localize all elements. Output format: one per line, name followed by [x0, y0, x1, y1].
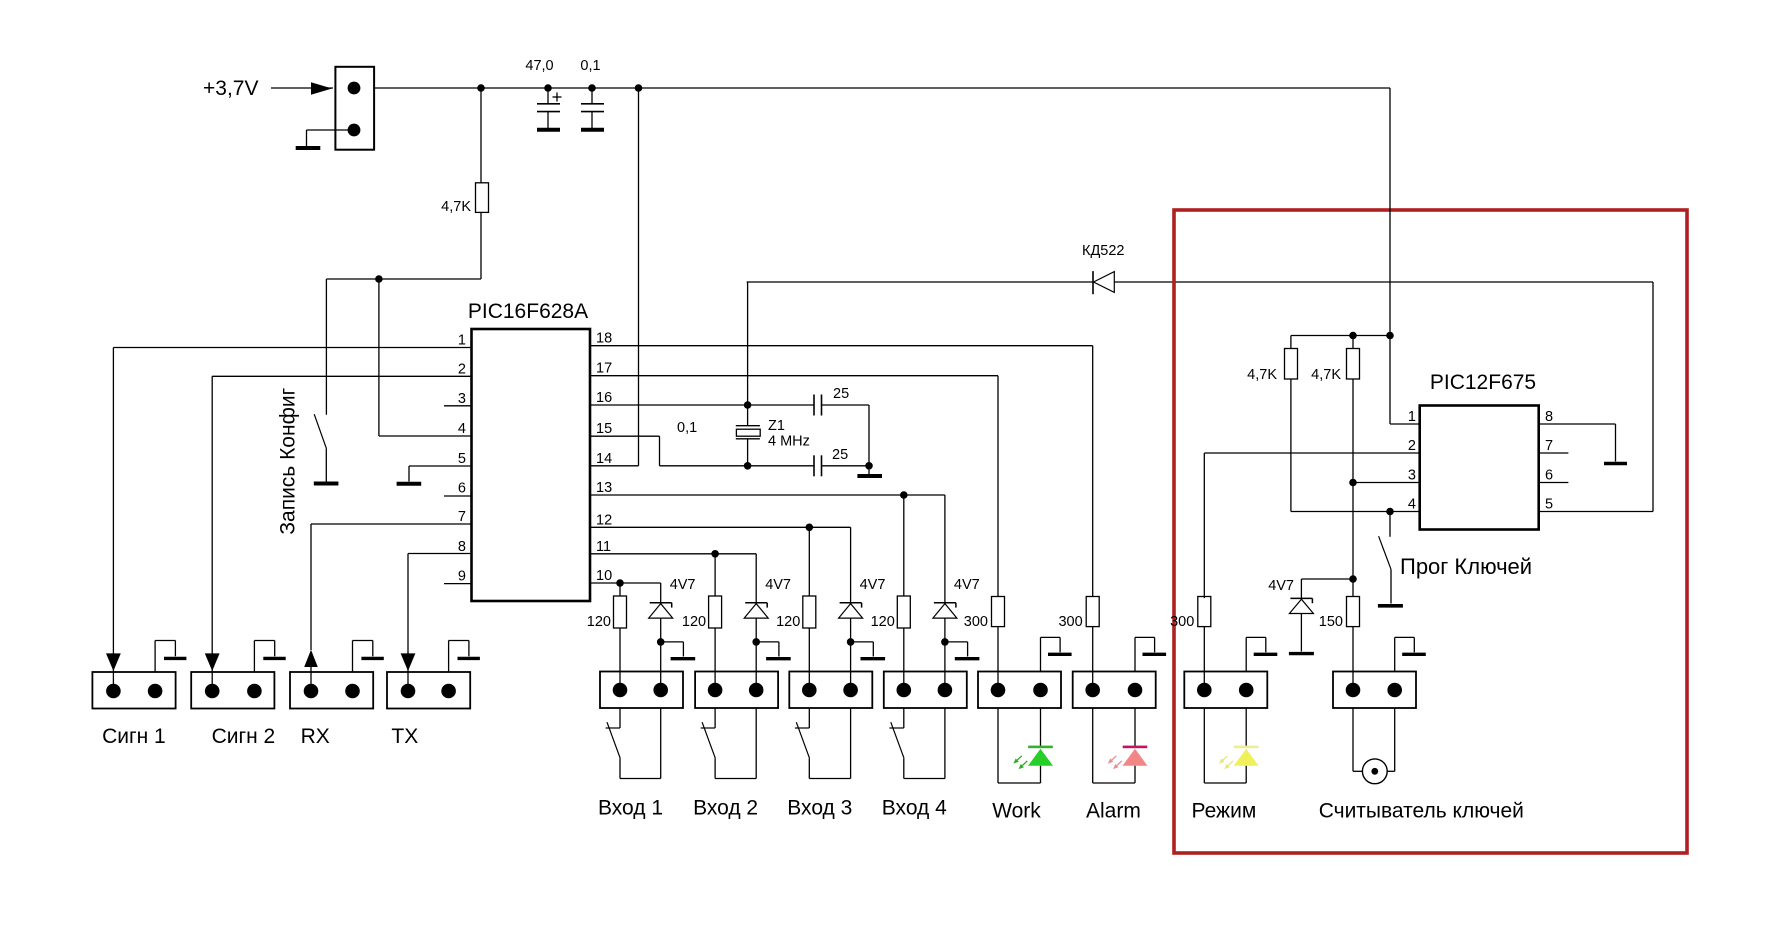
wire to switch S1 — [325, 279, 327, 415]
connector TX — [387, 672, 470, 709]
wire diode line left — [747, 281, 1093, 283]
wire pin8 U2 to ground — [1539, 424, 1616, 462]
connector keys — [1333, 672, 1416, 709]
node junction crystal bottom — [744, 462, 752, 470]
capacitor C1 47,0 — [537, 88, 562, 128]
capacitor C4 25 bottom — [748, 455, 869, 476]
wire R to connector input 1 — [619, 628, 621, 690]
wire switch loop input 1 — [620, 708, 661, 779]
wire LED loop Work — [998, 708, 1041, 783]
wire diode line right — [1114, 282, 1653, 512]
resistor 120 input 2 — [709, 596, 722, 628]
svg-text:4: 4 — [458, 421, 466, 437]
resistor Work — [992, 597, 1005, 627]
wire R to connector input 2 — [714, 628, 716, 690]
arrow Сигн 2 — [205, 653, 220, 671]
svg-text:25: 25 — [832, 447, 848, 463]
wire ground step keys — [1395, 637, 1415, 671]
switch input 2 — [701, 708, 716, 779]
wire R to connector Alarm — [1092, 627, 1094, 690]
wire pin10 U1 to input 1 — [590, 583, 661, 602]
svg-text:3: 3 — [458, 391, 466, 407]
svg-text:1: 1 — [458, 333, 466, 349]
pin numbers U2 — [1408, 409, 1553, 513]
wire pin3 U2 — [1353, 482, 1420, 484]
svg-text:12: 12 — [596, 512, 612, 528]
switch input 3 — [795, 708, 810, 779]
ground RX — [361, 657, 383, 660]
node junction pin4 switch — [1386, 508, 1394, 516]
svg-text:1: 1 — [1408, 409, 1416, 425]
svg-text:PIC16F628A: PIC16F628A — [468, 300, 588, 323]
svg-text:Вход 3: Вход 3 — [787, 797, 852, 820]
wire R3 down — [1352, 379, 1354, 596]
svg-text:Вход 1: Вход 1 — [598, 797, 663, 820]
wire junction to pin4 — [379, 279, 472, 436]
ground S1 — [314, 482, 339, 486]
wire LED loop Rezhim — [1204, 708, 1246, 783]
svg-text:Вход 2: Вход 2 — [693, 797, 758, 820]
svg-text:КД522: КД522 — [1082, 243, 1124, 259]
connector input 1 — [600, 672, 683, 709]
wire crystal top node up to diode line — [747, 282, 749, 405]
ground Сигн 2 — [263, 657, 285, 660]
svg-text:5: 5 — [1545, 497, 1553, 513]
svg-text:6: 6 — [1545, 468, 1553, 484]
svg-text:4 MHz: 4 MHz — [768, 434, 810, 450]
switch S1 Запись Конфиг — [314, 414, 326, 448]
wire pin2 drop — [211, 376, 213, 654]
connector Rezhim — [1184, 672, 1267, 709]
svg-text:300: 300 — [1058, 614, 1082, 630]
resistor Alarm — [1086, 597, 1099, 627]
label Z1 — [768, 418, 810, 450]
wire ground step TX — [449, 641, 469, 673]
wire pin9 U1 stub — [444, 583, 472, 585]
wire zener to connector input 1 — [660, 642, 662, 690]
LED Alarm — [1108, 708, 1148, 783]
ground input 2 — [766, 657, 791, 660]
connector Сигн 1 — [92, 672, 175, 709]
wire supply to pin1 U2 — [1390, 336, 1420, 425]
svg-text:14: 14 — [596, 451, 612, 467]
node junction input 2 — [711, 550, 719, 558]
node junction rail-C2 — [588, 84, 596, 92]
LED Rezhim — [1219, 708, 1259, 783]
wire ground step RX — [353, 641, 373, 673]
wire ground step Rezhim — [1246, 637, 1266, 671]
wire R to connector keys — [1352, 627, 1354, 690]
svg-text:10: 10 — [596, 568, 612, 584]
wire zener to connector input 2 — [755, 642, 757, 690]
svg-text:120: 120 — [871, 614, 895, 630]
wire rail to U2 — [1389, 88, 1391, 336]
svg-text:4V7: 4V7 — [765, 577, 791, 593]
wire LED loop Alarm — [1093, 708, 1135, 783]
svg-text:18: 18 — [596, 331, 612, 347]
wire switch loop input 2 — [715, 708, 756, 779]
wire S1 to ground — [325, 448, 327, 481]
svg-text:4,7K: 4,7K — [1311, 367, 1341, 383]
svg-text:3: 3 — [1408, 468, 1416, 484]
wire junction to R input 4 — [903, 495, 905, 596]
wire junction to R input 1 — [619, 583, 621, 596]
wire VDD pin14 — [590, 88, 639, 466]
svg-text:47,0: 47,0 — [525, 58, 553, 74]
wire pin1 drop — [112, 348, 114, 655]
svg-text:4V7: 4V7 — [1268, 578, 1294, 594]
node junction input 4 — [900, 491, 908, 499]
connector input 2 — [695, 672, 778, 709]
arrow TX — [401, 653, 416, 671]
wire zener junction to ground input 3 — [851, 642, 874, 657]
svg-text:4V7: 4V7 — [860, 577, 886, 593]
svg-text:Считыватель ключей: Считыватель ключей — [1319, 800, 1524, 823]
svg-text:150: 150 — [1319, 614, 1343, 630]
wire zener junction to ground input 2 — [756, 642, 779, 657]
resistor 120 input 1 — [614, 596, 627, 628]
svg-text:16: 16 — [596, 390, 612, 406]
wire ground step Work — [1041, 637, 1061, 671]
wire pin4 junction to switch S2 — [1389, 512, 1391, 537]
wire caps to ground — [868, 466, 870, 474]
svg-text:15: 15 — [596, 421, 612, 437]
zener diode 4V7 input 1 — [649, 603, 673, 642]
ground TX — [458, 657, 480, 660]
wire pin17 U1 to Work — [590, 376, 998, 597]
svg-text:300: 300 — [964, 614, 988, 630]
wire pin8 drop — [407, 554, 409, 655]
svg-text:25: 25 — [833, 386, 849, 402]
connector Work — [978, 672, 1061, 709]
svg-text:Z1: Z1 — [768, 418, 785, 434]
power input arrow — [271, 82, 333, 94]
wire Сигн 1 line — [112, 654, 114, 691]
node junction zener 4 — [941, 638, 949, 646]
svg-text:Вход 4: Вход 4 — [882, 797, 947, 820]
node junction crystal top — [744, 401, 752, 409]
wire pin2 U1 — [212, 375, 471, 377]
wire ground step Сигн 1 — [155, 641, 175, 673]
capacitor C2 0,1 — [581, 88, 604, 128]
node junction caps ground — [865, 462, 873, 470]
ground caps 25 — [857, 474, 882, 478]
wire R to connector input 3 — [808, 628, 810, 690]
svg-text:Прог Ключей: Прог Ключей — [1400, 554, 1532, 579]
wire zener to connector input 3 — [850, 642, 852, 690]
red highlight box — [1174, 210, 1687, 853]
wire RX line — [310, 667, 312, 691]
node junction rail-R1 — [477, 84, 485, 92]
ground Alarm — [1143, 653, 1167, 656]
resistor keys — [1347, 597, 1360, 627]
node junction zener 3 — [847, 638, 855, 646]
resistor R1 4,7K — [476, 183, 489, 213]
resistor R2 4,7K — [1285, 336, 1298, 380]
arrow Сигн 1 — [106, 653, 121, 671]
zener diode 4V7 input 4 — [933, 603, 957, 642]
wire Сигн 2 line — [211, 654, 213, 691]
wire zener to connector input 4 — [944, 642, 946, 690]
svg-text:11: 11 — [596, 539, 611, 555]
wire junction to R input 2 — [714, 554, 716, 596]
wire junction to R input 3 — [808, 527, 810, 596]
connector X1 power — [335, 67, 374, 150]
ground keys — [1402, 653, 1426, 656]
ground Сигн 1 — [164, 657, 186, 660]
connector input 4 — [884, 672, 967, 709]
wire supply rail U2 — [1291, 335, 1390, 337]
node junction input 1 — [616, 579, 624, 587]
connector Alarm — [1073, 672, 1156, 709]
key reader jack — [1353, 708, 1395, 784]
wire pin7 U1 — [311, 523, 472, 525]
switch input 1 — [606, 708, 621, 779]
wire pin8 U1 — [408, 553, 472, 555]
arrow RX — [304, 650, 318, 667]
wire pin16 to crystal — [590, 404, 748, 406]
svg-text:RX: RX — [301, 725, 330, 748]
wire pin13 U1 to input 4 — [590, 495, 945, 602]
crystal Z1 — [736, 405, 760, 466]
zener diode 4V7 input 2 — [744, 603, 768, 642]
node junction R3 top — [1349, 332, 1357, 340]
ground C1 — [537, 128, 560, 132]
resistor Rezhim — [1198, 597, 1211, 627]
wire R to connector Rezhim — [1203, 627, 1205, 690]
node junction 279 — [375, 275, 383, 283]
ground D2 — [1289, 652, 1314, 655]
wire R2 to pin4 U2 — [1291, 379, 1420, 512]
wire zener junction to ground input 4 — [945, 642, 968, 657]
wire R1 to node — [480, 212, 482, 279]
svg-text:8: 8 — [1545, 409, 1553, 425]
ground C2 — [581, 128, 604, 132]
svg-text:120: 120 — [587, 614, 611, 630]
svg-text:13: 13 — [596, 480, 612, 496]
wire rail to R1 — [480, 88, 482, 183]
wire pin12 U1 to input 3 — [590, 527, 851, 602]
wire pin7 U2 stub — [1539, 452, 1569, 454]
svg-text:0,1: 0,1 — [580, 58, 600, 74]
svg-text:+3,7V: +3,7V — [203, 77, 258, 100]
ground S2 — [1378, 604, 1403, 608]
svg-text:4,7K: 4,7K — [1247, 367, 1277, 383]
node junction zener branch — [1349, 575, 1357, 583]
svg-text:4: 4 — [1408, 497, 1416, 513]
resistor 120 input 4 — [897, 596, 910, 628]
wire TX line — [407, 654, 409, 691]
svg-text:4,7K: 4,7K — [441, 199, 471, 215]
svg-text:2: 2 — [458, 362, 466, 378]
svg-text:5: 5 — [458, 451, 466, 467]
wire pin5 U1 — [409, 466, 472, 482]
svg-text:TX: TX — [391, 725, 418, 748]
capacitor C3 25 top — [748, 395, 869, 466]
LED Work — [1013, 708, 1053, 783]
svg-text:17: 17 — [596, 361, 612, 377]
wire ground step Сигн 2 — [254, 641, 274, 673]
svg-text:6: 6 — [458, 481, 466, 497]
resistor R3 4,7K — [1347, 336, 1360, 380]
wire node row279 — [326, 278, 481, 280]
svg-text:120: 120 — [682, 614, 706, 630]
svg-text:2: 2 — [1408, 438, 1416, 454]
ground Work — [1048, 653, 1072, 656]
switch input 4 — [889, 708, 904, 779]
wire zener branch — [1301, 579, 1353, 598]
svg-text:9: 9 — [458, 569, 466, 585]
wire pin3 U1 stub — [444, 405, 472, 407]
node junction rail-VDD — [635, 84, 643, 92]
wire pin2 U2 — [1204, 453, 1419, 598]
ic U2 PIC12F675 body — [1420, 406, 1539, 530]
svg-text:300: 300 — [1170, 614, 1194, 630]
svg-text:8: 8 — [458, 539, 466, 555]
wire pin6 U2 stub — [1539, 482, 1569, 484]
ground X1 — [296, 146, 321, 150]
wire switch loop input 3 — [809, 708, 850, 779]
ic U1 PIC16F628A body — [472, 329, 591, 601]
wire R to connector Work — [997, 627, 999, 690]
svg-text:7: 7 — [458, 509, 466, 525]
svg-text:Сигн 2: Сигн 2 — [212, 725, 276, 748]
svg-text:4V7: 4V7 — [954, 577, 980, 593]
svg-text:Сигн 1: Сигн 1 — [102, 725, 166, 748]
wire +3.7V rail — [374, 87, 1390, 89]
node junction pin3 U2 — [1349, 479, 1357, 487]
wire ground step Alarm — [1135, 637, 1155, 671]
svg-text:120: 120 — [776, 614, 800, 630]
zener diode D2 4V7 — [1289, 598, 1313, 651]
node junction U2 supply — [1386, 332, 1394, 340]
diode КД522 — [1093, 271, 1114, 294]
svg-text:PIC12F675: PIC12F675 — [1430, 371, 1536, 394]
wire zener junction to ground input 1 — [661, 642, 684, 657]
switch S2 Прог Ключей — [1379, 536, 1391, 569]
wire pin18 U1 to Alarm — [590, 346, 1093, 597]
ground input 3 — [861, 657, 886, 660]
svg-text:Режим: Режим — [1192, 800, 1257, 823]
connector Сигн 2 — [191, 672, 274, 709]
ground input 4 — [955, 657, 980, 660]
node junction zener 1 — [657, 638, 665, 646]
svg-text:7: 7 — [1545, 438, 1553, 454]
connector RX — [290, 672, 373, 709]
wire pin6 U1 stub — [444, 495, 472, 497]
svg-text:Alarm: Alarm — [1086, 800, 1141, 823]
node junction rail-C1 — [544, 84, 552, 92]
svg-text:0,1: 0,1 — [677, 420, 697, 436]
pin numbers U1 — [458, 331, 612, 585]
wire S2 to ground — [1390, 569, 1392, 603]
resistor 120 input 3 — [803, 596, 816, 628]
connector input 3 — [789, 672, 872, 709]
svg-text:4V7: 4V7 — [670, 577, 696, 593]
wire pin11 U1 to input 2 — [590, 554, 756, 603]
ground Rezhim — [1254, 653, 1278, 656]
wire pin15 U1 — [590, 436, 748, 466]
wire X1 pin2 to ground — [307, 130, 355, 146]
ground pin8 U2 — [1604, 462, 1627, 466]
wire switch loop input 4 — [904, 708, 945, 779]
wire pin1 U1 — [113, 347, 471, 349]
ground input 1 — [671, 657, 696, 660]
node junction zener 2 — [752, 638, 760, 646]
svg-text:Запись Конфиг: Запись Конфиг — [277, 387, 300, 534]
wire pin7 drop — [310, 524, 312, 650]
zener diode 4V7 input 3 — [839, 603, 863, 642]
node junction input 3 — [806, 524, 814, 532]
ground pin5 U1 — [397, 482, 422, 486]
svg-text:Work: Work — [992, 800, 1041, 823]
wire pin5 U2 — [1539, 511, 1653, 513]
wire R to connector input 4 — [903, 628, 905, 690]
